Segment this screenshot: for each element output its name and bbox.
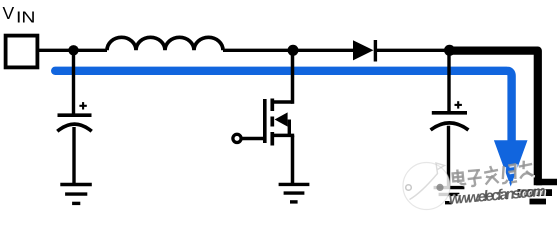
wire: input box to node A xyxy=(38,49,108,52)
wire: inductor to node B xyxy=(223,49,293,52)
transistor Q1 (N-channel MOSFET) body xyxy=(265,99,294,146)
watermark text: 电子发烧友 (stylized gray strokes) xyxy=(452,160,535,189)
wire: gate terminal to gate xyxy=(242,137,264,140)
thick output wire (to load, right side) xyxy=(450,51,557,186)
ground (output capacitor) xyxy=(434,188,465,203)
transistor Q1 (N-channel MOSFET) gate terminal circle xyxy=(233,134,241,142)
inductor L1 xyxy=(107,37,223,50)
label VIN xyxy=(3,3,36,27)
node B (switch node junction) xyxy=(288,45,299,56)
wire: MOSFET drain to node B xyxy=(291,50,295,104)
wire: MOSFET source to ground xyxy=(291,135,295,183)
node A (input junction) xyxy=(68,45,78,55)
watermark logo (elecfans) xyxy=(403,163,450,210)
svg-text:V: V xyxy=(3,3,15,23)
watermark text: www.elecfans.com xyxy=(447,181,548,209)
node C (output junction) xyxy=(444,45,455,56)
output capacitor C2 (electrolytic) xyxy=(431,50,469,187)
ground (MOSFET source) xyxy=(279,184,310,202)
ground (output return, thick) xyxy=(517,189,552,204)
current flow arrow (blue) xyxy=(55,71,527,187)
wire: diode cathode to node C xyxy=(377,49,450,52)
wire: node B to diode anode xyxy=(293,49,354,52)
svg-text:IN: IN xyxy=(16,10,36,27)
ground (input side) xyxy=(60,185,92,204)
diode D1 xyxy=(353,40,375,62)
input terminal box xyxy=(6,36,38,68)
input capacitor C1 (electrolytic) xyxy=(57,50,91,184)
